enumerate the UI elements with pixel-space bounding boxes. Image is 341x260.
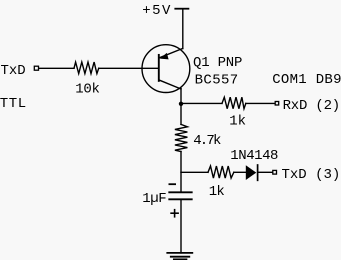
svg-text:4.7k: 4.7k	[193, 133, 221, 149]
svg-text:Q1 PNP: Q1 PNP	[193, 55, 242, 71]
svg-text:10k: 10k	[75, 82, 99, 98]
svg-text:TxD (3): TxD (3)	[282, 167, 341, 183]
svg-text:1k: 1k	[229, 113, 246, 129]
svg-text:+5V: +5V	[142, 3, 172, 19]
svg-text:1N4148: 1N4148	[230, 148, 278, 164]
svg-text:COM1 DB9: COM1 DB9	[272, 72, 341, 88]
svg-text:TxD: TxD	[1, 63, 26, 79]
svg-text:BC557: BC557	[195, 72, 239, 88]
svg-text:TTL: TTL	[0, 96, 27, 112]
svg-text:RxD (2): RxD (2)	[283, 98, 340, 114]
svg-text:1k: 1k	[209, 184, 225, 200]
svg-text:1µF: 1µF	[142, 191, 166, 207]
